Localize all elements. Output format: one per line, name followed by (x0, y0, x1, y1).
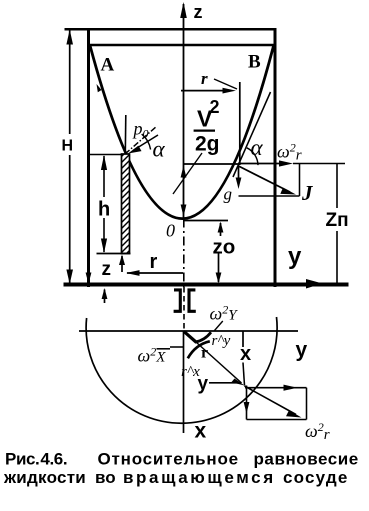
svg-text:x: x (195, 420, 207, 443)
vessel bottom / y axis line (64, 283, 349, 287)
svg-text:z: z (102, 259, 112, 280)
svg-text:2: 2 (210, 97, 220, 117)
bottom figure y axis (79, 330, 298, 332)
svg-text:Zп: Zп (326, 210, 349, 231)
svg-text:r: r (201, 69, 208, 88)
svg-text:B: B (248, 52, 261, 73)
svg-text:zo: zo (213, 236, 236, 259)
svg-text:α: α (153, 137, 166, 162)
svg-text:Рис. 4.6.: Рис. 4.6. (5, 450, 67, 469)
h bottom tick (97, 253, 131, 255)
thin vertical line above column (124, 115, 127, 154)
p0 arrow into Q (133, 135, 158, 151)
vessel left wall (87, 28, 90, 287)
r dimension bottom (127, 272, 183, 274)
svg-text:α: α (251, 135, 264, 160)
H dimension line (69, 29, 71, 134)
svg-text:x: x (240, 343, 251, 365)
tangent line at P (233, 92, 271, 177)
liquid chord line A-B (87, 44, 277, 46)
svg-text:y: y (296, 339, 308, 362)
svg-text:y: y (288, 243, 302, 270)
zo dimension (220, 223, 222, 236)
level line through P (184, 163, 239, 165)
axis continuation to bottom figure (183, 287, 185, 331)
r vector in plan (184, 331, 197, 342)
bottom figure x axis (183, 331, 185, 433)
J vector (238, 166, 290, 192)
tangent dash-dot at Q (125, 126, 157, 154)
svg-text:во: во (95, 468, 116, 487)
bearing symbol ][ (174, 290, 181, 311)
h top tick (89, 154, 123, 156)
svg-text:g: g (224, 185, 233, 204)
projection line from axis to M (242, 331, 244, 347)
vector down at M (246, 386, 248, 420)
svg-text:z: z (194, 2, 203, 22)
angle arc r^x (188, 341, 210, 358)
small arrowhead on left branch (97, 84, 102, 92)
svg-text:r^y: r^y (212, 333, 231, 349)
v2/2g dimension arrows on z axis (181, 166, 187, 178)
circle plan view of vessel (86, 317, 277, 423)
svg-text:r: r (201, 345, 208, 362)
svg-text:вращающемся: вращающемся (123, 468, 276, 487)
z small dimension (121, 256, 123, 272)
svg-text:2g: 2g (195, 133, 220, 156)
svg-text:r: r (150, 251, 158, 273)
omega2r vector at P (238, 163, 284, 165)
Zn top tick (293, 163, 345, 165)
vessel top rim (65, 28, 277, 31)
omega2X leader (170, 346, 184, 348)
svg-text:сосуде: сосуде (283, 468, 349, 487)
r arrow top (181, 90, 228, 92)
angle arc r^y (196, 332, 212, 342)
r label leader (214, 79, 237, 89)
z axis (183, 4, 185, 219)
diagonal vector at M (245, 386, 297, 415)
leader from fraction (173, 153, 202, 194)
svg-text:равновесие: равновесие (254, 450, 359, 469)
Zn dimension line (336, 164, 338, 209)
vertical line at radius of P (239, 82, 241, 165)
h dimension line (103, 156, 105, 197)
vessel right wall (274, 28, 277, 287)
zo vertex tick (183, 220, 228, 222)
alpha arc at Q (142, 134, 151, 149)
svg-text:A: A (101, 55, 115, 76)
alpha arc at P (247, 148, 258, 165)
g vector (238, 166, 240, 183)
overline on X (157, 348, 171, 350)
svg-text:жидкости: жидкости (3, 468, 86, 487)
y axis arrowhead (306, 279, 323, 289)
parabola (free surface) (90, 46, 274, 219)
hatched column at radius r (122, 154, 130, 254)
svg-text:h: h (98, 199, 110, 221)
svg-text:H: H (62, 138, 74, 155)
force parallelogram (299, 164, 301, 197)
svg-text:J: J (301, 181, 314, 205)
svg-text:0: 0 (166, 221, 175, 241)
vector right at M (245, 387, 307, 389)
svg-text:y: y (198, 374, 209, 395)
svg-text:Относительное: Относительное (98, 450, 239, 469)
omega2Y leader (215, 321, 223, 331)
vector rectangle at M (306, 388, 308, 420)
